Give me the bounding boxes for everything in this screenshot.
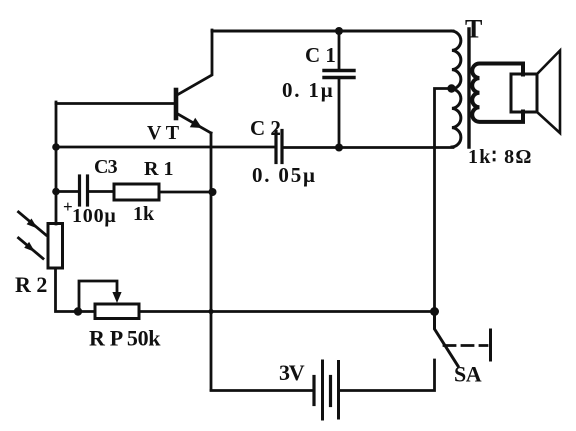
svg-text:T: T (465, 15, 482, 44)
svg-text:1k∶ 8Ω: 1k∶ 8Ω (468, 146, 533, 168)
wire top rail collector to transformer (212, 30, 453, 33)
label 3V battery value (279, 360, 305, 385)
svg-text:3V: 3V (279, 360, 305, 385)
svg-text:SA: SA (454, 362, 482, 387)
speaker cone (537, 51, 560, 134)
resistor R2 photoresistor body (48, 224, 63, 269)
label plus polarity (63, 197, 73, 216)
speaker driver box (511, 74, 537, 112)
transistor Q1 base bar (VT) (174, 90, 179, 118)
transformer T core (467, 29, 470, 147)
light arrow 1 into R2 (19, 212, 47, 235)
svg-text:1k: 1k (133, 203, 155, 225)
label C1 (305, 43, 336, 67)
wire RP wiper bypass loop (79, 281, 122, 311)
label 1k value (133, 203, 155, 225)
svg-text:C 1: C 1 (305, 43, 336, 67)
potentiometer RP body (95, 304, 139, 319)
wire C3 to R1 (89, 190, 114, 193)
battery B1 3V plates (314, 361, 339, 419)
wire bottom rail left (211, 389, 313, 392)
wire R1 to emitter line (159, 191, 212, 194)
capacitor C3 plates (electrolytic 100u) (80, 176, 88, 205)
node R1 / emitter junction (209, 188, 217, 196)
transistor Q1 emitter lead with arrow (176, 113, 211, 133)
label R2 (15, 272, 47, 297)
wire collector lead (177, 30, 212, 95)
svg-text:R P 50k: R P 50k (89, 326, 161, 351)
svg-text:R 1: R 1 (144, 158, 173, 180)
svg-text:V T: V T (147, 122, 180, 144)
wire base (56, 102, 175, 105)
switch SA contact bar (489, 330, 492, 360)
node RP bypass junction (74, 307, 82, 315)
wire below R2 down and right (56, 268, 96, 312)
label RP 50k (89, 326, 161, 351)
resistor R1 body (114, 184, 159, 200)
label VT (147, 122, 180, 144)
wire tap down to switch (435, 89, 452, 309)
node C3 branch junction (52, 188, 60, 196)
transformer T secondary winding (472, 64, 523, 122)
label R1 (144, 158, 173, 180)
node transformer tap (447, 84, 455, 92)
svg-text:0. 05μ: 0. 05μ (252, 163, 317, 187)
wire emitter vertical down to battery rail (210, 133, 213, 390)
node top rail / C1 junction (335, 27, 343, 35)
label C3 (94, 156, 118, 178)
svg-text:100μ: 100μ (72, 205, 117, 227)
wire bottom rail right (340, 360, 435, 391)
label 0.1u value (282, 78, 334, 102)
wire left vertical rail (55, 102, 58, 224)
svg-text:R 2: R 2 (15, 272, 47, 297)
transformer T primary winding (452, 31, 461, 147)
capacitor C2 plates (276, 131, 282, 163)
light arrow 2 into R2 (19, 238, 44, 259)
label 100u value (72, 205, 117, 227)
node C1 bottom junction (335, 144, 343, 152)
label 0.05u value (252, 163, 317, 187)
label C2 (250, 116, 281, 140)
switch SA blade (435, 312, 459, 366)
node base rail / feedback junction (52, 143, 60, 151)
label T transformer (465, 15, 482, 44)
node switch junction (430, 307, 439, 316)
node emitter line crossing (208, 309, 213, 314)
wire RP to switch junction (139, 310, 434, 313)
svg-text:C 2: C 2 (250, 116, 281, 140)
svg-text:0. 1μ: 0. 1μ (282, 78, 334, 102)
wire feedback rail right (284, 146, 454, 149)
wire C3 branch left (56, 190, 78, 193)
capacitor C1 (vertical) (324, 31, 354, 147)
svg-text:C3: C3 (94, 156, 118, 178)
label SA switch (454, 362, 482, 387)
label 1k:8ohm impedance (468, 146, 533, 168)
switch SA dashed actuator link (444, 344, 487, 347)
wire feedback rail left (base side) (56, 146, 275, 149)
